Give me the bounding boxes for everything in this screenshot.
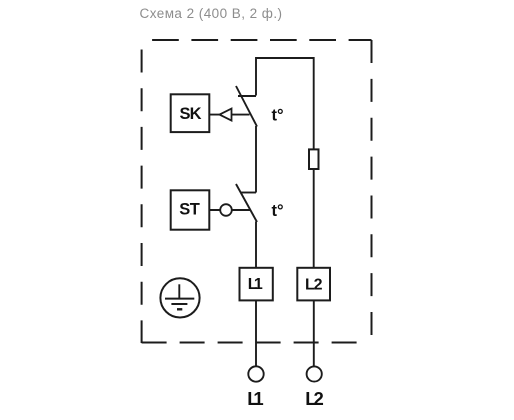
svg-text:t°: t° — [272, 202, 284, 220]
svg-text:SK: SK — [180, 105, 202, 123]
svg-text:L1: L1 — [247, 388, 264, 409]
svg-text:Схема 2 (400 В, 2 ф.): Схема 2 (400 В, 2 ф.) — [140, 6, 283, 21]
svg-text:L2: L2 — [305, 388, 324, 409]
svg-text:ST: ST — [179, 201, 200, 219]
svg-text:L1: L1 — [248, 276, 263, 293]
svg-text:L2: L2 — [305, 276, 323, 293]
svg-text:t°: t° — [272, 106, 284, 124]
